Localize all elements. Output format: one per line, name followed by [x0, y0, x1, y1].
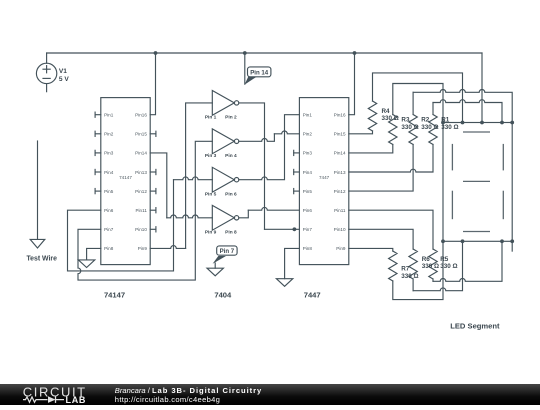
svg-text:Pin 1: Pin 1 — [205, 115, 217, 121]
svg-text:330 Ω: 330 Ω — [401, 124, 418, 131]
svg-text:Pin1: Pin1 — [104, 113, 114, 118]
svg-text:330 Ω: 330 Ω — [440, 263, 457, 270]
svg-text:330 Ω: 330 Ω — [422, 263, 439, 270]
svg-text:Pin10: Pin10 — [135, 227, 147, 232]
svg-text:Pin6: Pin6 — [303, 208, 313, 213]
svg-text:Pin 7: Pin 7 — [220, 248, 235, 255]
svg-text:Pin12: Pin12 — [334, 189, 346, 194]
svg-text:R6: R6 — [422, 256, 431, 263]
svg-text:Pin 3: Pin 3 — [205, 153, 217, 159]
svg-text:Pin15: Pin15 — [135, 132, 147, 137]
svg-text:Pin2: Pin2 — [303, 132, 313, 137]
svg-text:74147: 74147 — [104, 290, 125, 299]
svg-text:Pin8: Pin8 — [104, 246, 114, 251]
svg-text:Pin7: Pin7 — [303, 227, 313, 232]
svg-text:330 Ω: 330 Ω — [421, 124, 438, 131]
svg-text:Pin 8: Pin 8 — [225, 230, 237, 236]
svg-text:Pin3: Pin3 — [303, 151, 313, 156]
svg-text:R5: R5 — [440, 256, 449, 263]
svg-text:Pin5: Pin5 — [104, 189, 114, 194]
svg-text:7404: 7404 — [214, 290, 232, 299]
svg-text:Pin13: Pin13 — [334, 170, 346, 175]
svg-text:Test Wire: Test Wire — [26, 255, 57, 262]
svg-text:Pin16: Pin16 — [135, 113, 147, 118]
svg-text:V1: V1 — [59, 68, 67, 75]
svg-text:R2: R2 — [421, 117, 430, 124]
svg-text:330 Ω: 330 Ω — [401, 273, 418, 280]
svg-text:Pin 5: Pin 5 — [205, 192, 217, 198]
svg-text:Pin12: Pin12 — [135, 189, 147, 194]
svg-text:Pin2: Pin2 — [104, 132, 114, 137]
svg-text:330 Ω: 330 Ω — [441, 124, 458, 131]
svg-text:Pin 6: Pin 6 — [225, 192, 237, 198]
svg-text:74147: 74147 — [119, 175, 132, 180]
svg-text:330 Ω: 330 Ω — [382, 115, 399, 122]
svg-text:Pin9: Pin9 — [138, 246, 148, 251]
svg-text:Pin7: Pin7 — [104, 227, 114, 232]
svg-text:Pin 14: Pin 14 — [250, 69, 269, 76]
svg-text:R4: R4 — [382, 108, 391, 115]
svg-text:Pin6: Pin6 — [104, 208, 114, 213]
svg-text:Pin9: Pin9 — [336, 246, 346, 251]
svg-text:7447: 7447 — [319, 175, 330, 180]
svg-text:Pin10: Pin10 — [334, 227, 346, 232]
svg-text:Pin14: Pin14 — [334, 151, 346, 156]
svg-text:Pin 4: Pin 4 — [225, 153, 237, 159]
svg-text:Pin5: Pin5 — [303, 189, 313, 194]
svg-text:Pin13: Pin13 — [135, 170, 147, 175]
svg-text:Pin3: Pin3 — [104, 151, 114, 156]
svg-text:7447: 7447 — [304, 290, 321, 299]
svg-text:Pin 2: Pin 2 — [225, 115, 237, 121]
svg-text:Pin4: Pin4 — [303, 170, 313, 175]
svg-text:R3: R3 — [401, 117, 410, 124]
svg-text:R7: R7 — [401, 266, 410, 273]
svg-text:Pin11: Pin11 — [135, 208, 147, 213]
svg-text:Pin1: Pin1 — [303, 113, 313, 118]
svg-text:Pin8: Pin8 — [303, 246, 313, 251]
svg-text:Pin 9: Pin 9 — [205, 230, 217, 236]
svg-text:LED Segment: LED Segment — [450, 321, 500, 330]
svg-text:5 V: 5 V — [59, 76, 69, 83]
svg-text:Pin11: Pin11 — [334, 208, 346, 213]
svg-text:Pin16: Pin16 — [334, 113, 346, 118]
svg-text:LAB: LAB — [66, 395, 87, 405]
svg-text:Pin4: Pin4 — [104, 170, 114, 175]
svg-text:Pin14: Pin14 — [135, 151, 147, 156]
svg-text:Pin15: Pin15 — [334, 132, 346, 137]
